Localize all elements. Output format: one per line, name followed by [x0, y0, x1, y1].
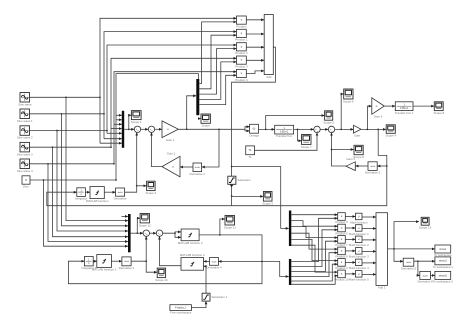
math function block Math function 4 — [349, 259, 369, 270]
mux Mux 1 — [122, 111, 124, 148]
wire zero output — [30, 179, 116, 181]
wire riser Omega output to Scope 5 — [266, 116, 325, 130]
adder block Add 1 (vertical) — [376, 213, 388, 290]
wire bus riser 6 zero to demux top — [116, 74, 198, 180]
wire Integrator output to MATLAB function — [85, 191, 90, 193]
wire riser main line to demux input — [187, 96, 197, 130]
product block Product 1 — [235, 29, 248, 41]
wire sine wave output — [30, 96, 101, 98]
svg-text:Sine wave: Sine wave — [18, 102, 32, 106]
sine wave source Sine wave 2 — [17, 126, 33, 140]
wire Gain 4 output to Transfer Fcn 1 — [384, 105, 395, 107]
svg-text:TL: TL — [248, 155, 252, 159]
derivative block Derivative — [114, 188, 127, 200]
saturation block Saturation — [228, 176, 251, 184]
mux Mux 2 — [128, 214, 131, 252]
wire branch feedback to Derivative 2 — [377, 165, 387, 167]
wire product column 6 output to math function — [345, 273, 355, 275]
wire demux output 1 riser to Product input 2 — [199, 22, 236, 84]
svg-text:×: × — [240, 18, 242, 22]
wire Derivative 3 output riser to Sum 5 bottom — [131, 237, 146, 262]
svg-text:u²: u² — [358, 227, 360, 230]
scope block Scope 10 — [155, 268, 168, 282]
derivative block Derivative 2 (flipped) — [365, 162, 381, 175]
wire demux1 output 3 to product column — [291, 227, 337, 238]
math function block Math function 2 — [349, 236, 369, 247]
wire stub to MATLAB function 2 input 2 — [175, 233, 181, 237]
svg-text:×: × — [240, 32, 242, 36]
wire math function 4 output to Add 1 — [362, 250, 376, 252]
svg-text:du/dt: du/dt — [118, 191, 123, 194]
wire branch to Derivative 4 — [219, 260, 263, 262]
sine wave source Sine wave 3 — [17, 142, 33, 156]
wire Sum 1 to Sum 2 — [141, 128, 148, 130]
constant block Zero — [22, 176, 30, 189]
constant block TL — [246, 146, 255, 159]
wire Sum 6 to MATLAB function 2 — [163, 232, 181, 233]
product block Product 3 — [235, 56, 248, 68]
svg-text:MATLAB function 1: MATLAB function 1 — [92, 268, 117, 272]
svg-text:Saturation: Saturation — [237, 178, 251, 182]
math function block Math function 3 — [349, 248, 369, 259]
wire junction dots — [43, 96, 419, 262]
svg-text:Derivative 5: Derivative 5 — [401, 266, 417, 270]
derivative block Derivative 5 — [401, 258, 417, 270]
wire drop main line to Derivative 1 — [202, 129, 219, 167]
adder block Add (vertical) — [264, 15, 273, 79]
svg-text:0.05s+1: 0.05s+1 — [400, 108, 409, 110]
wire riser to Scope 12 — [137, 218, 140, 233]
svg-text:MATLAB function 2: MATLAB function 2 — [178, 241, 203, 245]
matlab function block MATLAB function 3 (flipped) — [180, 253, 205, 270]
svg-text:Product 5: Product 5 — [335, 220, 348, 224]
wire Product output to Add input 1 — [246, 19, 264, 21]
svg-text:×: × — [341, 272, 343, 276]
scope block Scope 5 — [323, 111, 334, 125]
wire riser to Scope 11 — [220, 219, 225, 235]
wire Add output down-left to Saturation — [232, 47, 276, 176]
wire branch Derivative 5 output to Derivative 6 — [418, 261, 420, 275]
svg-text:Scope 9: Scope 9 — [353, 155, 364, 159]
svg-text:Scope 4: Scope 4 — [385, 134, 396, 138]
wire MATLAB function 3 output to Sum 6 bottom — [160, 237, 182, 266]
sine wave source Sine wave 4 — [17, 159, 33, 173]
svg-text:simout: simout — [439, 248, 446, 251]
wire drop Transfer Fcn output to Scope 7 — [298, 129, 302, 140]
wire product column 1 output to math function — [345, 216, 355, 218]
svg-text:Scope 12: Scope 12 — [139, 223, 152, 227]
svg-text:×: × — [341, 226, 343, 230]
svg-text:Gain 1: Gain 1 — [166, 138, 175, 142]
svg-text:Sine wave 1: Sine wave 1 — [17, 119, 33, 123]
gain triangle Gain 3 (left-pointing) — [346, 157, 355, 171]
wire Derivative 1 output to Gain 2 — [180, 166, 193, 168]
gain triangle Gain 2 (left-pointing) — [162, 152, 180, 177]
wire branch to demux 4 input — [262, 261, 289, 276]
svg-text:u²: u² — [358, 215, 360, 218]
wire Integrator 1 output to MATLAB function 1 — [93, 260, 97, 262]
matlab function block MATLAB function 1 — [92, 255, 117, 272]
svg-text:du/dt: du/dt — [124, 260, 129, 263]
demux Demux — [196, 79, 199, 115]
wire Product 3 output to Add input 4 — [246, 59, 264, 61]
wire tap sine wave to mux2 input 1 — [66, 97, 128, 220]
wire From workspace output to Saturation 1 — [191, 301, 206, 307]
wire sine wave 2 output — [30, 130, 108, 132]
svg-text:Product 8: Product 8 — [335, 254, 348, 258]
svg-text:Scope 5: Scope 5 — [323, 121, 334, 125]
wire Product 2 output to Add input 3 — [246, 46, 264, 48]
wire bus stub 3 to mux1 — [107, 132, 122, 134]
svg-text:Transfer Fcn: Transfer Fcn — [276, 134, 293, 138]
wire bus stub 2 to mux1 — [104, 138, 122, 140]
svg-text:Derivative: Derivative — [114, 196, 127, 200]
derivative block Derivative 4 (flipped) — [206, 258, 222, 270]
scope block Scope 2 — [262, 192, 273, 206]
wire Derivative 5 output to simout1 — [414, 260, 435, 262]
demux Demux 2 — [289, 259, 291, 285]
svg-text:Scope 7: Scope 7 — [301, 145, 312, 149]
wire bus stub 7 to mux1 — [116, 114, 122, 116]
wire Sum 4 to Gain — [335, 128, 354, 130]
wire bus riser 3 to Product 2 input 1 — [107, 45, 237, 133]
wire bus riser 4 to Product 3 input 1 — [111, 58, 237, 147]
scope block Scope 7 — [301, 135, 312, 149]
product block Product 2 — [235, 43, 248, 55]
wire Transfer Fcn output to Sum 3 — [294, 128, 314, 130]
svg-text:Scope 3: Scope 3 — [145, 191, 156, 195]
svg-text:Scope 8: Scope 8 — [433, 111, 444, 115]
wire Add 1 output to simout — [394, 248, 435, 250]
svg-text:From workspace: From workspace — [170, 311, 192, 315]
scope block Scope 6 — [343, 89, 354, 103]
wire Gain output to Scope 4 — [361, 128, 386, 130]
wire bus riser 5 to Product 4 input 1 — [114, 72, 237, 164]
wire mux2 output to Sum 5 — [131, 232, 143, 234]
wire tap sine wave 2 to mux2 input 3 — [57, 131, 128, 232]
wire branch to Scope 9 — [332, 149, 354, 151]
svg-text:Derivative 6: Derivative 6 — [417, 280, 433, 284]
svg-text:Scope 1: Scope 1 — [131, 120, 142, 124]
svg-text:-K-: -K- — [167, 129, 170, 131]
svg-text:TL: TL — [248, 148, 252, 152]
wire tap zero to mux2 input 6 — [44, 180, 129, 246]
svg-text:Product 10: Product 10 — [335, 277, 349, 281]
wire bus riser 1 to Product input 1 — [100, 18, 237, 143]
svg-text:Add: Add — [266, 75, 272, 79]
scope block Scope 9 — [353, 145, 364, 159]
gain triangle Gain 4 — [372, 98, 385, 119]
svg-text:Product 7: Product 7 — [335, 243, 348, 247]
svg-text:simout1: simout1 — [439, 260, 448, 263]
svg-text:Derivative 4: Derivative 4 — [206, 266, 222, 270]
wire demux1 output 1 to product column — [291, 214, 337, 216]
svg-text:×: × — [240, 58, 242, 62]
svg-text:Saturation 1: Saturation 1 — [212, 295, 228, 299]
to workspace block simout — [434, 245, 452, 257]
sum junction Sum 1 — [134, 126, 140, 133]
svg-text:Scope 10: Scope 10 — [155, 278, 168, 282]
svg-text:×: × — [240, 45, 242, 49]
wire Product 4 output to Add input 5 — [246, 71, 264, 74]
from workspace block From workspace — [170, 305, 192, 315]
wire demux2 output 2 to product column — [291, 230, 337, 267]
svg-text:×: × — [341, 238, 343, 242]
wire Derivative output riser to Sum 1 bottom — [125, 133, 137, 193]
svg-text:Product 6: Product 6 — [335, 231, 348, 235]
svg-text:Math function 2: Math function 2 — [349, 243, 369, 247]
svg-text:-K-: -K- — [375, 106, 378, 108]
wire demux2 output 3 to product column — [291, 241, 337, 271]
wire product column 4 output to math function — [345, 250, 355, 252]
svg-text:u²: u² — [358, 273, 360, 276]
svg-text:Sine wave 4: Sine wave 4 — [17, 169, 33, 173]
svg-text:Product 3: Product 3 — [235, 64, 248, 68]
wire product column 3 output to math function — [345, 238, 355, 240]
wire Gain 3 output to Sum 4 bottom — [332, 133, 347, 166]
svg-text:du/dt: du/dt — [195, 166, 200, 169]
svg-text:To workspace 1: To workspace 1 — [433, 265, 453, 269]
scope block Scope 3 — [145, 181, 156, 195]
wire tap sine wave 4 to mux2 input 5 — [48, 164, 128, 242]
svg-text:du/dt: du/dt — [370, 165, 375, 168]
svg-text:Add 1: Add 1 — [378, 286, 386, 290]
wire riser to Scope 6 — [341, 94, 343, 129]
gain triangle Gain — [354, 125, 362, 137]
svg-text:Gain 2: Gain 2 — [167, 152, 176, 156]
product block Product 4 — [235, 69, 248, 81]
wire bus stub 6 to mux1 — [116, 119, 122, 121]
saturation output arrowhead — [230, 185, 234, 188]
wire demux output 5 riser to Product 4 input 2 — [199, 75, 236, 104]
integrator block Integrator 1 — [81, 257, 96, 271]
wire demux2 output 6 to product column — [291, 276, 337, 285]
wire mux1 output to Sum 1 — [124, 128, 134, 130]
wire sine wave 1 output — [30, 113, 105, 115]
derivative block Derivative 3 — [119, 257, 135, 270]
svg-text:Scope 13: Scope 13 — [419, 226, 432, 230]
wire MATLAB function output to Derivative — [104, 191, 115, 193]
wire bus stub 4 to mux1 — [111, 128, 122, 130]
svg-text:simout2: simout2 — [439, 274, 448, 277]
wire MATLAB function 2 output main — [68, 235, 262, 284]
wire branch Add output to demux 3 input — [232, 167, 289, 229]
wire MATLAB function 1 output to Derivative 3 — [111, 260, 121, 262]
transfer function block Transfer Fcn 1 — [395, 102, 414, 115]
product block Product 7 — [335, 236, 348, 247]
svg-text:Scope: Scope — [202, 124, 211, 128]
scope block Scope 4 — [385, 125, 396, 138]
wire Derivative 2 output to Gain 3 — [355, 165, 368, 167]
wire Omega output to Transfer Fcn — [259, 128, 275, 130]
wire Saturation 1 output to MATLAB function 3 input 2 — [204, 266, 206, 293]
scope block Scope 1 — [131, 111, 142, 124]
wire branch Saturation output to Scope 2 — [232, 195, 264, 197]
svg-text:Product: Product — [236, 24, 246, 28]
wire product column 2 output to math function — [345, 227, 355, 229]
scope block Scope 13 — [419, 217, 432, 229]
svg-text:Product 2: Product 2 — [235, 51, 248, 55]
svg-text:MATLAB function: MATLAB function — [86, 199, 109, 203]
math function block Math function 5 — [349, 271, 369, 282]
wire demux1 output 2 to product column — [291, 221, 337, 227]
wire Sum 2 to Gain 1 — [155, 128, 162, 130]
subsystem block Omega — [249, 124, 259, 137]
svg-text:MATLAB function 3: MATLAB function 3 — [180, 253, 205, 257]
gain triangle Gain 1 — [162, 121, 178, 142]
wire demux stub to Scope — [199, 118, 201, 120]
demux Demux 1 — [289, 211, 291, 247]
svg-text:Derivative 1: Derivative 1 — [190, 172, 206, 176]
svg-text:ω: ω — [253, 127, 256, 131]
math function block Math function 1 — [349, 225, 369, 236]
svg-text:To workspace 2: To workspace 2 — [433, 280, 453, 284]
sum junction Sum 6 — [156, 230, 162, 237]
scope block Scope — [201, 114, 210, 128]
integrator block Integrator — [75, 188, 87, 201]
wire riser Gain output to Gain 4 — [367, 106, 371, 129]
svg-text:du/dt: du/dt — [406, 261, 411, 264]
svg-text:Math function 3: Math function 3 — [349, 255, 369, 259]
svg-text:Omega: Omega — [249, 133, 259, 137]
wire Sum 5 to Sum 6 — [150, 232, 157, 234]
wire demux output 4 riser to Product 3 input 2 — [199, 62, 236, 100]
scope block Scope 12 — [139, 214, 152, 228]
wire demux2 output 1 to product column — [291, 218, 337, 261]
sum junction Sum 2 — [148, 126, 154, 133]
scope block Scope 11 — [224, 216, 236, 230]
wire bus riser 2 to Product 1 input 1 — [104, 32, 237, 139]
product block Product — [236, 16, 246, 28]
wire Add 1 output drop to Derivative 5 — [394, 249, 403, 261]
svg-text:u²: u² — [358, 250, 360, 253]
product block Product 10 — [335, 270, 349, 281]
to workspace block simout1 — [433, 257, 453, 269]
wire demux output 2 riser to Product 1 input 2 — [199, 35, 236, 89]
svg-text:-K-: -K- — [172, 167, 175, 169]
product block Product 8 — [335, 247, 348, 258]
wire tap sine wave 1 to mux2 input 2 — [62, 114, 129, 226]
wire branch Derivative 3 output to Scope 10 — [146, 261, 157, 272]
wire Sum 3 to Sum 4 — [320, 128, 328, 130]
wire TL output to Sum 3 bottom — [255, 133, 318, 151]
svg-text:×: × — [341, 261, 343, 265]
wire math function 5 output to Add 1 — [362, 262, 376, 264]
wire Gain 1 output main line — [178, 127, 249, 130]
sum junction Sum 3 — [314, 126, 320, 133]
sine wave source Sine wave — [18, 93, 32, 107]
wire main drop to feedback line — [47, 129, 387, 205]
wire Product 1 output to Add input 2 — [246, 33, 264, 35]
matlab function block MATLAB function 2 — [178, 229, 203, 245]
wire bus stub 1 to mux1 — [100, 142, 122, 144]
wire demux1 output 5 to product column — [291, 239, 337, 260]
wire Add 1 output — [388, 222, 420, 249]
svg-text:Derivative 2: Derivative 2 — [365, 171, 381, 175]
svg-text:Math function 1: Math function 1 — [349, 232, 369, 236]
svg-text:×: × — [240, 72, 242, 76]
wire main line stub to Omega input 2 — [245, 129, 250, 131]
svg-text:Gain: Gain — [354, 134, 360, 138]
svg-text:Sine wave 2: Sine wave 2 — [17, 136, 33, 140]
product block Product 6 — [335, 224, 348, 235]
wire bus stub 5 to mux1 — [114, 123, 122, 125]
svg-text:×: × — [341, 249, 343, 253]
wire demux output 3 riser to Product 2 input 2 — [199, 49, 236, 95]
svg-text:Product 9: Product 9 — [335, 266, 348, 270]
wire demux1 output 6 to product column — [291, 245, 337, 272]
wire demux2 output 4 to product column — [291, 253, 337, 277]
wire Derivative 6 output to simout2 — [430, 274, 434, 276]
wire product column 5 output to math function — [345, 261, 355, 263]
svg-text:Sine wave 3: Sine wave 3 — [17, 152, 33, 156]
svg-text:Zero: Zero — [23, 184, 29, 188]
svg-text:Scope 6: Scope 6 — [343, 99, 354, 103]
wire branch Derivative output to Scope 3 — [137, 185, 147, 187]
sum junction Sum 4 — [328, 126, 334, 133]
sine wave source Sine wave 1 — [17, 109, 33, 123]
svg-text:F-statics_1: F-statics_1 — [175, 307, 187, 310]
derivative block Derivative 6 — [417, 271, 433, 283]
wire riser to Scope 1 — [129, 115, 131, 129]
product block Product 5 — [335, 213, 348, 224]
wire mux2 input stub 0 — [122, 215, 129, 217]
svg-text:du/dt: du/dt — [212, 260, 217, 263]
svg-text:u²: u² — [358, 238, 360, 241]
svg-text:Derivative 3: Derivative 3 — [119, 266, 135, 270]
svg-text:Math function: Math function — [350, 220, 368, 224]
wire demux1 output 4 to product column — [291, 233, 337, 249]
to workspace block simout2 — [433, 271, 453, 283]
product block Product 9 — [335, 259, 348, 270]
svg-text:Scope 2: Scope 2 — [262, 202, 273, 206]
sum junction Sum 5 — [143, 230, 149, 237]
wire sine wave 3 output — [30, 146, 112, 148]
svg-text:Product 4: Product 4 — [235, 78, 248, 82]
wire demux2 output 5 to product column — [291, 264, 337, 281]
transfer function block Transfer Fcn — [275, 125, 294, 138]
wire Derivative 4 output to MATLAB function 3 — [204, 260, 210, 262]
matlab function block MATLAB function — [86, 187, 109, 203]
svg-text:Scope 11: Scope 11 — [224, 225, 236, 229]
wire math function 3 output to Add 1 — [362, 239, 376, 241]
svg-text:Transfer Fcn 1: Transfer Fcn 1 — [395, 111, 414, 115]
scope block Scope 8 — [433, 102, 444, 115]
wire tap sine wave 3 to mux2 input 4 — [53, 147, 129, 237]
wire math function 1 output to Add 1 — [362, 216, 376, 218]
derivative block Derivative 1 (flipped) — [190, 163, 206, 176]
svg-text:Math function 5: Math function 5 — [349, 278, 369, 282]
math function block Math function — [350, 213, 368, 224]
wire Transfer Fcn 1 output to Scope 8 — [413, 105, 434, 107]
svg-text:Product 1: Product 1 — [235, 38, 248, 42]
saturation block Saturation 1 — [202, 293, 227, 301]
svg-text:×: × — [341, 215, 343, 219]
svg-text:u²: u² — [358, 261, 360, 264]
svg-text:du/dt: du/dt — [423, 274, 428, 277]
svg-text:Gain 4: Gain 4 — [374, 115, 383, 119]
wire sine wave 4 output — [30, 163, 115, 165]
wire math function 2 output to Add 1 — [362, 228, 376, 230]
svg-text:Math function 4: Math function 4 — [349, 266, 369, 270]
wire math function 6 output to Add 1 — [362, 273, 376, 275]
wire Saturation output down — [231, 185, 233, 206]
wire Gain 2 output to Sum 2 bottom — [152, 133, 163, 167]
